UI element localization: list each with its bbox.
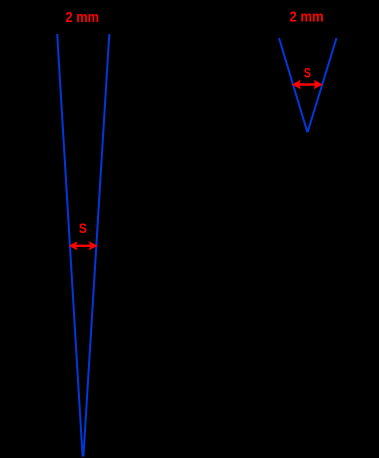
arrow left head (right cone) (292, 80, 301, 89)
right cone right edge (308, 38, 337, 132)
arrow left head (left cone) (69, 241, 78, 250)
svg-text:S: S (304, 65, 311, 80)
svg-text:2 mm: 2 mm (290, 9, 324, 26)
left cone left edge (57, 34, 82, 457)
arrow S width (left cone) shaft (71, 245, 95, 247)
arrow right head (right cone) (314, 80, 323, 89)
arrow right head (left cone) (89, 241, 98, 250)
left cone right edge (83, 34, 109, 457)
arrow S width (right cone) shaft (294, 83, 320, 85)
right cone left edge (279, 38, 307, 132)
svg-text:S: S (79, 221, 87, 236)
svg-text:2 mm: 2 mm (66, 9, 100, 26)
